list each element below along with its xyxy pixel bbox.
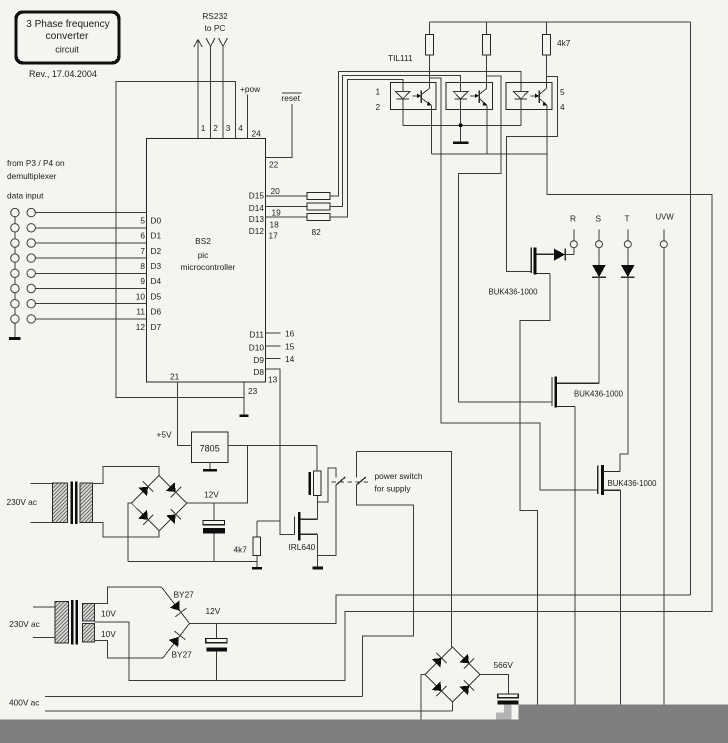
junction dot cathodes [459, 123, 463, 127]
wire source branch to switch1 bottom [317, 485, 336, 556]
svg-text:10V: 10V [101, 629, 116, 639]
svg-text:T: T [625, 214, 630, 224]
wire D11 stub pin 16 [266, 332, 281, 334]
svg-text:reset: reset [282, 93, 301, 103]
svg-text:D7: D7 [151, 322, 162, 332]
wire mains primary bottom [31, 522, 53, 524]
svg-text:400V ac: 400V ac [9, 698, 39, 708]
svg-text:16: 16 [285, 329, 295, 339]
wire UVW line down to bottom [663, 248, 665, 705]
svg-text:BUK436-1000: BUK436-1000 [489, 288, 539, 297]
wire D4 [35, 272, 146, 274]
wire bridge plus to 7805 input [187, 446, 248, 504]
transformer T1 [53, 482, 93, 525]
wire Q2 source down to gray area [574, 407, 576, 705]
svg-text:D15: D15 [249, 191, 265, 201]
ground 4k7 [252, 567, 262, 570]
svg-text:8: 8 [140, 261, 145, 271]
wire cathode3 drop [520, 110, 522, 126]
wire mains primary top [31, 482, 53, 484]
svg-text:D13: D13 [249, 214, 265, 224]
svg-text:D1: D1 [151, 231, 162, 241]
svg-text:D4: D4 [151, 276, 162, 286]
opto3 phototransistor [539, 89, 547, 106]
wire drain branch to switch1 top [317, 468, 336, 502]
svg-text:11: 11 [136, 307, 145, 317]
terminal T [624, 214, 631, 248]
wire D9 stub pin 14 [266, 358, 281, 360]
wire RS232 RX with down arrow [206, 38, 215, 139]
opto3 internal arrow [530, 94, 539, 98]
terminal R [570, 214, 577, 248]
wire RS232 pin4 serial ground to chip pin 23 node [116, 82, 244, 398]
svg-text:D9: D9 [253, 355, 264, 365]
wire mains2 primary bottom [33, 636, 55, 638]
svg-text:circuit: circuit [55, 45, 79, 55]
wire D6 [35, 303, 146, 305]
relay coil K1 [308, 446, 321, 496]
svg-text:12V: 12V [206, 606, 221, 616]
wire opto2 collector output to BUK2 gate [458, 76, 552, 402]
opto1 LED [396, 92, 411, 126]
wire pullup R1 top [428, 22, 430, 35]
switch contact 2 (mains switch) [356, 452, 413, 697]
wire D1 [35, 227, 146, 229]
diode BY27 D1 [170, 601, 187, 617]
wire opto emitters common rail [95, 106, 712, 681]
transistor Q1 BUK436-1000 (R phase) [531, 248, 554, 275]
wire D15 to resistor [266, 195, 308, 197]
svg-text:3 Phase frequency: 3 Phase frequency [26, 19, 109, 30]
wire D2 [35, 242, 146, 244]
pin names D0-D7 inside chip [151, 216, 162, 332]
svg-text:D14: D14 [249, 203, 265, 213]
ground opto cathodes [453, 141, 469, 144]
wire Q1 source to bottom rail [520, 274, 550, 705]
svg-text:82: 82 [312, 227, 322, 237]
switch contact 1 (relay latch) [336, 477, 346, 485]
svg-text:230V ac: 230V ac [9, 619, 39, 629]
diode D_S on S phase [592, 248, 606, 277]
wire supply1 ground rail [128, 561, 257, 563]
svg-text:D10: D10 [249, 343, 265, 353]
pin numbers 5-12 left side [136, 216, 146, 332]
svg-text:IRL640: IRL640 [289, 542, 316, 552]
svg-text:4k7: 4k7 [557, 38, 571, 48]
text from P3 / P4 on demultiplexer [7, 158, 65, 181]
svg-text:converter: converter [46, 31, 89, 42]
svg-text:566V: 566V [494, 660, 514, 670]
resistor 82 ohm R6 (D13) [307, 214, 330, 221]
top supply bus to pull-up resistors [429, 21, 690, 23]
svg-text:D11: D11 [249, 330, 264, 340]
wire D5 [35, 288, 146, 290]
capacitor C2 12V floating [206, 623, 227, 680]
gray screenshot block right [518, 704, 728, 743]
wire +12V floating rail right side down [690, 22, 692, 595]
svg-text:BS2: BS2 [195, 236, 211, 246]
wire bridge2 bottom to 400V line2 [452, 702, 454, 711]
opto3 LED [514, 92, 529, 126]
pin numbers 16 15 14 13 [268, 329, 295, 385]
svg-text:+5V: +5V [157, 430, 172, 440]
pin names D11-D8 inside chip [249, 330, 265, 378]
resistor 4k7 pullup R3 [542, 35, 550, 56]
svg-text:19: 19 [272, 208, 282, 218]
opto2 phototransistor [479, 89, 487, 106]
transformer T2 [55, 600, 95, 645]
svg-text:D2: D2 [151, 246, 162, 256]
wire Q3 source down to gray area [620, 490, 622, 704]
svg-text:17: 17 [269, 231, 279, 241]
svg-text:BY27: BY27 [172, 650, 193, 660]
svg-text:7: 7 [140, 246, 145, 256]
svg-text:+pow: +pow [240, 84, 261, 94]
svg-text:5: 5 [140, 216, 145, 226]
pin names D15-D12 inside chip right [249, 191, 265, 237]
wire D3 [35, 257, 146, 259]
svg-text:D3: D3 [151, 261, 162, 271]
wire 400V ac line 2 [45, 710, 453, 712]
svg-text:D6: D6 [151, 307, 162, 317]
opto2 internal arrow [470, 94, 479, 98]
svg-text:4k7: 4k7 [234, 545, 248, 555]
transistor Q4 IRL640 [295, 512, 318, 540]
svg-text:3: 3 [226, 123, 231, 133]
wire mains2 primary top [33, 606, 55, 608]
wire D15 resistor to bus1 and opto3 LED [330, 72, 521, 196]
svg-text:20: 20 [271, 186, 281, 196]
resistor 4k7 gate pulldown R7 [253, 521, 280, 567]
svg-text:5: 5 [560, 87, 565, 97]
wire T2 secondary top to diode BY27 D1 [95, 587, 190, 623]
svg-text:22: 22 [269, 160, 279, 170]
wire pullup R2 top [486, 22, 488, 35]
opto-coupler U3 TIL111 box 2 [446, 82, 493, 109]
svg-text:21: 21 [170, 372, 180, 382]
svg-text:10: 10 [136, 291, 146, 301]
svg-text:pic: pic [198, 250, 209, 260]
opto-coupler U2 TIL111 box 1 [390, 82, 436, 109]
svg-text:24: 24 [252, 129, 262, 139]
opto2 LED [453, 92, 468, 126]
wire D13 to resistor [266, 216, 308, 218]
wire pin21 +5V to 7805 [178, 382, 192, 446]
svg-text:12V: 12V [204, 490, 219, 500]
diode D_T on T phase [621, 248, 635, 277]
wire bridge2 plus to 566V cap [480, 675, 508, 694]
wire D14 to resistor [266, 206, 308, 208]
svg-text:18: 18 [270, 220, 280, 230]
wire 7805 ground stub [209, 462, 211, 468]
label power switch for supply [375, 471, 423, 494]
svg-text:230V ac: 230V ac [7, 497, 37, 507]
wire 400V ac line 1 [45, 695, 362, 697]
svg-text:10V: 10V [101, 609, 116, 619]
opto1 phototransistor [421, 89, 432, 106]
wire chip pin23 ground stub [243, 382, 245, 415]
svg-text:TIL111: TIL111 [388, 53, 413, 63]
svg-text:4: 4 [238, 123, 243, 133]
svg-text:BUK436-1000: BUK436-1000 [608, 479, 658, 488]
wire Q4 drain to relay coil bottom and latch contact [316, 496, 318, 520]
ground IRL640 [312, 567, 323, 570]
ground 7805 [203, 469, 217, 472]
wire D7 [35, 318, 146, 320]
wire D14 resistor to bus2 and opto2 LED [330, 76, 461, 207]
terminal S [596, 214, 603, 248]
svg-text:15: 15 [285, 342, 295, 352]
transistor Q3 BUK436-1000 (T phase) [598, 465, 621, 495]
data input connector circles column and chain [11, 208, 19, 337]
data input pin circles second column [27, 208, 35, 323]
wire D0 [35, 212, 146, 214]
svg-text:BUK436-1000: BUK436-1000 [574, 390, 624, 399]
svg-text:D12: D12 [249, 226, 265, 236]
svg-text:9: 9 [140, 276, 145, 286]
svg-text:for supply: for supply [375, 484, 412, 494]
wire opto1 collector output to BUK3 gate [429, 78, 597, 490]
svg-text:4: 4 [560, 102, 565, 112]
diode BY27 D2 [169, 631, 186, 647]
svg-text:1: 1 [201, 123, 206, 133]
resistor 82 ohm R5 (D14) [307, 203, 330, 210]
svg-text:microcontroller: microcontroller [181, 262, 236, 272]
gray artifact steps [496, 704, 512, 719]
svg-text:12: 12 [136, 322, 146, 332]
wire +pow to pin 24 [247, 95, 249, 139]
svg-text:BY27: BY27 [174, 590, 195, 600]
svg-text:power switch: power switch [375, 471, 423, 481]
svg-text:UVW: UVW [656, 213, 675, 222]
resistor 4k7 pullup R2 [483, 35, 491, 56]
op chip BS2 microcontroller U1 [146, 139, 265, 382]
terminal UVW [656, 213, 675, 248]
svg-text:demultiplexer: demultiplexer [7, 171, 57, 181]
svg-text:to PC: to PC [205, 23, 226, 33]
wire +12V floating output [190, 595, 691, 623]
wire pullup R3 top [545, 22, 547, 35]
svg-text:D5: D5 [151, 291, 162, 301]
wire D13 resistor to bus3 and opto1 LED [330, 80, 403, 218]
resistor 4k7 pullup R1 [425, 35, 433, 56]
wire bridge minus to ground rail [128, 503, 131, 561]
svg-text:7805: 7805 [200, 444, 220, 454]
pin numbers 20 19 18 17 [269, 186, 282, 241]
wire T1 secondary top to bridge [93, 467, 160, 484]
wire RS232 line 3 with down arrow [219, 38, 228, 139]
pin labels 1 2 3 4 [201, 123, 244, 133]
wire opto3 collector output to BUK1 gate [506, 76, 557, 271]
wire bridge2 minus down [421, 675, 425, 720]
wire Q4 source to ground [316, 534, 318, 566]
wire switch2 top to 400V bridge [356, 452, 451, 647]
wire 7805 input rail to relay coil [228, 445, 317, 447]
node reset label with overline [282, 93, 302, 103]
svg-text:data input: data input [7, 191, 44, 201]
title box [16, 12, 119, 63]
wire opto LED cathodes common [403, 124, 521, 126]
wire R2 bottom to opto2 collector [486, 55, 488, 89]
wire R1 bottom to opto1 collector [428, 55, 430, 89]
wire D8 pin13 to IRL640 gate [266, 369, 295, 535]
svg-text:14: 14 [285, 354, 295, 364]
svg-text:1: 1 [376, 87, 381, 97]
bridge rectifier B1 [132, 476, 187, 531]
svg-text:RS232: RS232 [202, 11, 228, 21]
resistor 82 ohm R4 (D15) [307, 193, 330, 200]
wire T phase to Q3 drain with jog [620, 277, 628, 471]
svg-text:S: S [596, 214, 602, 224]
wire T2 secondary bottom to diode BY27 D2 [95, 623, 190, 658]
opto1 internal arrow [412, 94, 421, 98]
wire RS232 TX with up arrow [194, 40, 202, 139]
wire D10 stub pin 15 [266, 345, 281, 347]
wire R3 bottom to opto3 collector [545, 55, 547, 89]
capacitor C3 566V [497, 694, 518, 705]
svg-text:2: 2 [213, 123, 218, 133]
gray screenshot band bottom [0, 720, 728, 743]
ground pin23 [240, 414, 249, 417]
svg-text:23: 23 [248, 386, 258, 396]
diode D_R at Q1 drain [554, 248, 574, 261]
opto-coupler U4 TIL111 box 3 [506, 82, 552, 109]
bridge rectifier B2 400V [425, 647, 480, 702]
mechanical link dashed [332, 481, 372, 483]
svg-text:from P3 / P4 on: from P3 / P4 on [7, 158, 65, 168]
transistor Q2 BUK436-1000 (S phase) [552, 376, 599, 407]
svg-text:Rev., 17.04.2004: Rev., 17.04.2004 [29, 69, 97, 79]
svg-text:D0: D0 [151, 216, 162, 226]
wire reset to chip pin 22 [266, 104, 293, 158]
wire cathode2 drop [460, 110, 462, 142]
svg-text:R: R [570, 214, 576, 224]
wire T1 secondary bottom to bridge [93, 523, 160, 538]
svg-text:6: 6 [140, 231, 145, 241]
ground data input [9, 337, 21, 340]
capacitor C1 12V [203, 503, 225, 561]
regulator 7805 U5 [191, 432, 228, 462]
wire S phase to Q2 drain [598, 277, 600, 383]
svg-text:D8: D8 [253, 367, 264, 377]
svg-text:13: 13 [268, 375, 278, 385]
svg-text:2: 2 [376, 102, 381, 112]
